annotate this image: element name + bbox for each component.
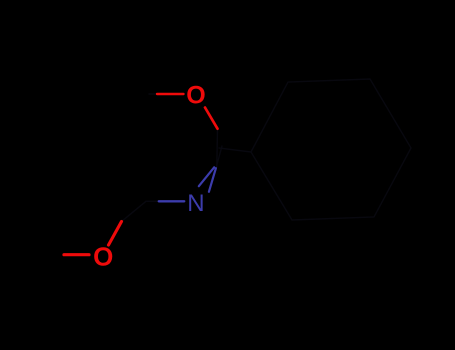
svg-text:O: O bbox=[93, 241, 113, 271]
svg-text:O: O bbox=[186, 81, 205, 109]
svg-text:N: N bbox=[187, 190, 204, 217]
